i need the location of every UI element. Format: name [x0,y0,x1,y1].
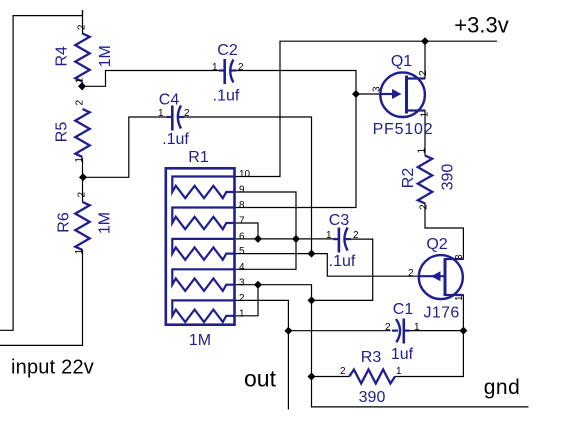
capacitor C3 [333,228,351,253]
svg-text:1: 1 [454,295,465,301]
resistor R2 [418,156,432,204]
wire top-left loop [0,10,83,330]
svg-text:input 22v: input 22v [11,357,94,379]
svg-text:10: 10 [239,169,251,180]
wire R1 pin6 to C3 [235,238,335,240]
svg-text:1: 1 [212,62,218,73]
wire Q1 gate [356,93,380,95]
svg-text:+3.3v: +3.3v [454,13,508,38]
svg-text:2: 2 [77,24,88,30]
resistor R6 [75,202,89,250]
svg-text:2: 2 [184,108,190,119]
wire R5 to junction [82,158,84,180]
wire R4 top stub [82,10,84,34]
transistor Q1 JFET PF5102 [380,72,425,117]
svg-text:R5: R5 [53,122,70,143]
svg-text:Q1: Q1 [391,53,412,70]
svg-text:C2: C2 [217,42,238,59]
svg-text:390: 390 [440,164,457,191]
wire out node to C1 [288,330,390,332]
junction pin1-pin3 [254,281,262,289]
wire R2 bottom to Q2 top [425,203,463,260]
svg-text:1uf: 1uf [391,346,414,363]
svg-text:R1: R1 [188,149,209,166]
junction R5-R6 [79,173,87,181]
svg-text:3: 3 [454,254,465,260]
svg-text:J176: J176 [423,305,459,322]
svg-text:2: 2 [77,191,88,197]
svg-text:1: 1 [420,111,431,117]
svg-text:C1: C1 [393,301,414,318]
wire R1 pin4 [235,239,297,269]
svg-text:1M: 1M [97,212,114,234]
resistor R3 [349,370,395,384]
wire C1 node down to R3 pin1 [395,331,464,377]
resistor R4 [75,34,89,82]
svg-text:gnd: gnd [484,376,521,399]
junction out node [284,327,292,335]
svg-text:5: 5 [239,246,245,257]
junction C1-Q2 [459,327,467,335]
wire C2 left [82,71,223,87]
svg-text:R4: R4 [53,46,70,67]
junction R3-gnd [308,373,316,381]
svg-text:.1uf: .1uf [329,253,356,270]
wire out stub [287,331,289,410]
wire C3 right return [312,239,373,300]
wire R1 pin1 up to pin3 [235,285,259,316]
svg-text:4: 4 [239,262,245,273]
svg-text:2: 2 [408,268,414,279]
svg-text:7: 7 [239,216,245,227]
wire R3 pin2 to gnd drop [312,376,350,378]
wire C4 left [83,117,168,177]
resistor network R1 box [166,168,235,324]
svg-text:C3: C3 [329,212,350,229]
svg-text:1: 1 [158,108,164,119]
wire junction to R6 [82,174,84,202]
svg-text:out: out [244,366,277,392]
svg-text:1: 1 [326,230,332,241]
svg-text:Q2: Q2 [426,236,447,253]
svg-text:1: 1 [417,147,428,153]
wire R1 pin3 to gnd node [235,285,312,301]
svg-text:R3: R3 [361,349,382,366]
junction pin7-pin6 [254,235,262,243]
svg-text:3: 3 [372,86,383,92]
R1 element 4 (pins 4-3) [172,269,234,291]
svg-text:2: 2 [353,230,359,241]
transistor Q2 JFET J176 [419,255,464,299]
svg-text:1M: 1M [97,45,114,67]
capacitor C4 [167,106,185,131]
svg-text:8: 8 [239,200,245,211]
svg-text:390: 390 [359,389,386,406]
R1 element 3 (pins 6-5) [172,239,234,260]
svg-text:PF5102: PF5102 [373,121,434,138]
svg-text:2: 2 [238,62,244,73]
wire gnd rail [312,300,529,407]
svg-text:6: 6 [239,232,245,243]
wire R1 pin2 to out node [235,300,289,330]
svg-text:2: 2 [385,322,391,333]
svg-text:1M: 1M [189,332,211,349]
svg-text:1: 1 [75,77,86,83]
wire C1 right to Q2 source node [409,330,463,332]
svg-text:1: 1 [74,248,85,254]
svg-text:2: 2 [418,70,429,76]
svg-text:9: 9 [239,185,245,196]
capacitor C2 [219,59,237,84]
svg-text:2: 2 [239,293,245,304]
svg-text:.1uf: .1uf [213,88,240,105]
junction R4-R5 [78,82,86,90]
svg-text:2: 2 [340,366,346,377]
svg-text:1: 1 [396,366,402,377]
wire R1 pin5 to Q2 gate [235,254,419,277]
junction +3.3v / Q1 drain [421,37,429,45]
svg-text:R6: R6 [55,212,72,233]
svg-text:3: 3 [239,277,245,288]
wire Q2 pin3 top [445,258,463,260]
svg-text:.1uf: .1uf [162,131,189,148]
R1 element 2 (pins 8-7) [172,208,234,230]
wire Q1 drain [407,41,426,78]
wire R1 pin9 [235,192,297,239]
junction pin9-pin6 [292,235,300,243]
svg-text:C4: C4 [159,92,180,109]
R1 element 1 (pins 10-9) [172,177,234,199]
junction Q1 gate [352,90,360,98]
wire R1 pin7 [235,223,259,239]
junction C4-pin5 [308,250,316,258]
capacitor C1 (mirrored) [392,319,410,344]
svg-text:1: 1 [74,157,85,163]
wire R4-R5 junction link [82,82,84,90]
resistor R5 [75,109,89,157]
svg-text:2: 2 [74,99,85,105]
wire +3.3v rail [235,41,498,176]
wire C4 right to pin5 [183,117,312,254]
svg-text:1: 1 [239,308,245,319]
svg-text:R2: R2 [400,168,417,189]
R1 element 5 (pins 2-1) [172,300,234,322]
wire Q1 source to R2 [407,111,426,156]
wire Q2 pin1 to C1 node [445,295,463,331]
junction gnd node [308,296,316,304]
svg-text:1: 1 [414,322,420,333]
wire R6 bottom to input [0,250,83,345]
svg-text:2: 2 [419,204,430,210]
wire C2 right to pin8 drop [235,71,357,208]
